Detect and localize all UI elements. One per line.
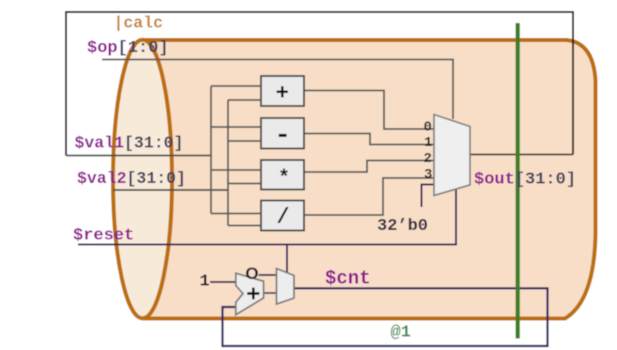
svg-text:*: * [278, 168, 290, 191]
wire reset branch to cnt mux select [286, 245, 288, 274]
svg-text:$op[1:0]: $op[1:0] [87, 39, 169, 58]
wire $cnt feedback loop [223, 288, 548, 346]
mux U2 (cnt reset mux) [277, 269, 295, 305]
wire $out from mux to scope edge [470, 154, 573, 156]
wire mul in1 [211, 169, 261, 171]
wire div in1 [211, 213, 261, 215]
svg-text:32’b0: 32’b0 [377, 217, 428, 236]
wire $reset to mux selects [78, 190, 456, 245]
pipeline cylinder left ellipse [113, 40, 172, 319]
wire $val2 [113, 189, 228, 191]
wire adder to cnt mux [264, 292, 277, 294]
op box add [261, 76, 304, 106]
wire diff to mux in1 [304, 134, 434, 145]
scope box |calc [66, 12, 573, 156]
svg-text:$val2[31:0]: $val2[31:0] [77, 169, 186, 188]
op box mul [261, 160, 304, 190]
stage boundary line [516, 23, 520, 339]
svg-text:3: 3 [424, 167, 432, 183]
op box sub [261, 118, 304, 149]
svg-text:@1: @1 [391, 324, 411, 343]
svg-text:$val1[31:0]: $val1[31:0] [75, 134, 184, 153]
svg-text:O: O [245, 264, 258, 283]
wire sum to mux in0 [304, 91, 434, 130]
wire $op select [102, 60, 453, 120]
wire div in2 [228, 225, 261, 227]
label + [277, 86, 288, 97]
svg-text:1: 1 [200, 273, 210, 292]
svg-text:/: / [276, 205, 289, 230]
svg-text:|calc: |calc [114, 14, 164, 33]
wire const 0 to cnt mux [259, 274, 277, 276]
node val1 bus [210, 86, 212, 214]
svg-text:2: 2 [424, 151, 432, 167]
label + adder [247, 288, 259, 300]
svg-text:$out[31:0]: $out[31:0] [474, 171, 576, 190]
label - [279, 134, 287, 137]
svg-text:1: 1 [424, 135, 432, 151]
wire quot to mux in3 [304, 178, 434, 215]
wire add in2 [228, 99, 261, 101]
wire mul in2 [228, 183, 261, 185]
wire $val1 [66, 155, 211, 157]
adder (counter +1) [236, 273, 264, 315]
node val2 bus [227, 100, 229, 226]
wire const 1 to adder [210, 281, 236, 283]
pipeline cylinder body [143, 40, 596, 319]
op box div [261, 201, 304, 231]
svg-text:$reset: $reset [73, 227, 134, 246]
wire 32'b0 to mux [422, 185, 435, 208]
wire sub in1 [211, 126, 261, 128]
wire add in1 [211, 85, 261, 87]
wire sub in2 [228, 140, 261, 142]
svg-text:$cnt: $cnt [325, 268, 371, 290]
mux U1 (op select) [434, 115, 470, 196]
wire prod to mux in2 [304, 161, 434, 173]
svg-text:0: 0 [424, 120, 432, 136]
